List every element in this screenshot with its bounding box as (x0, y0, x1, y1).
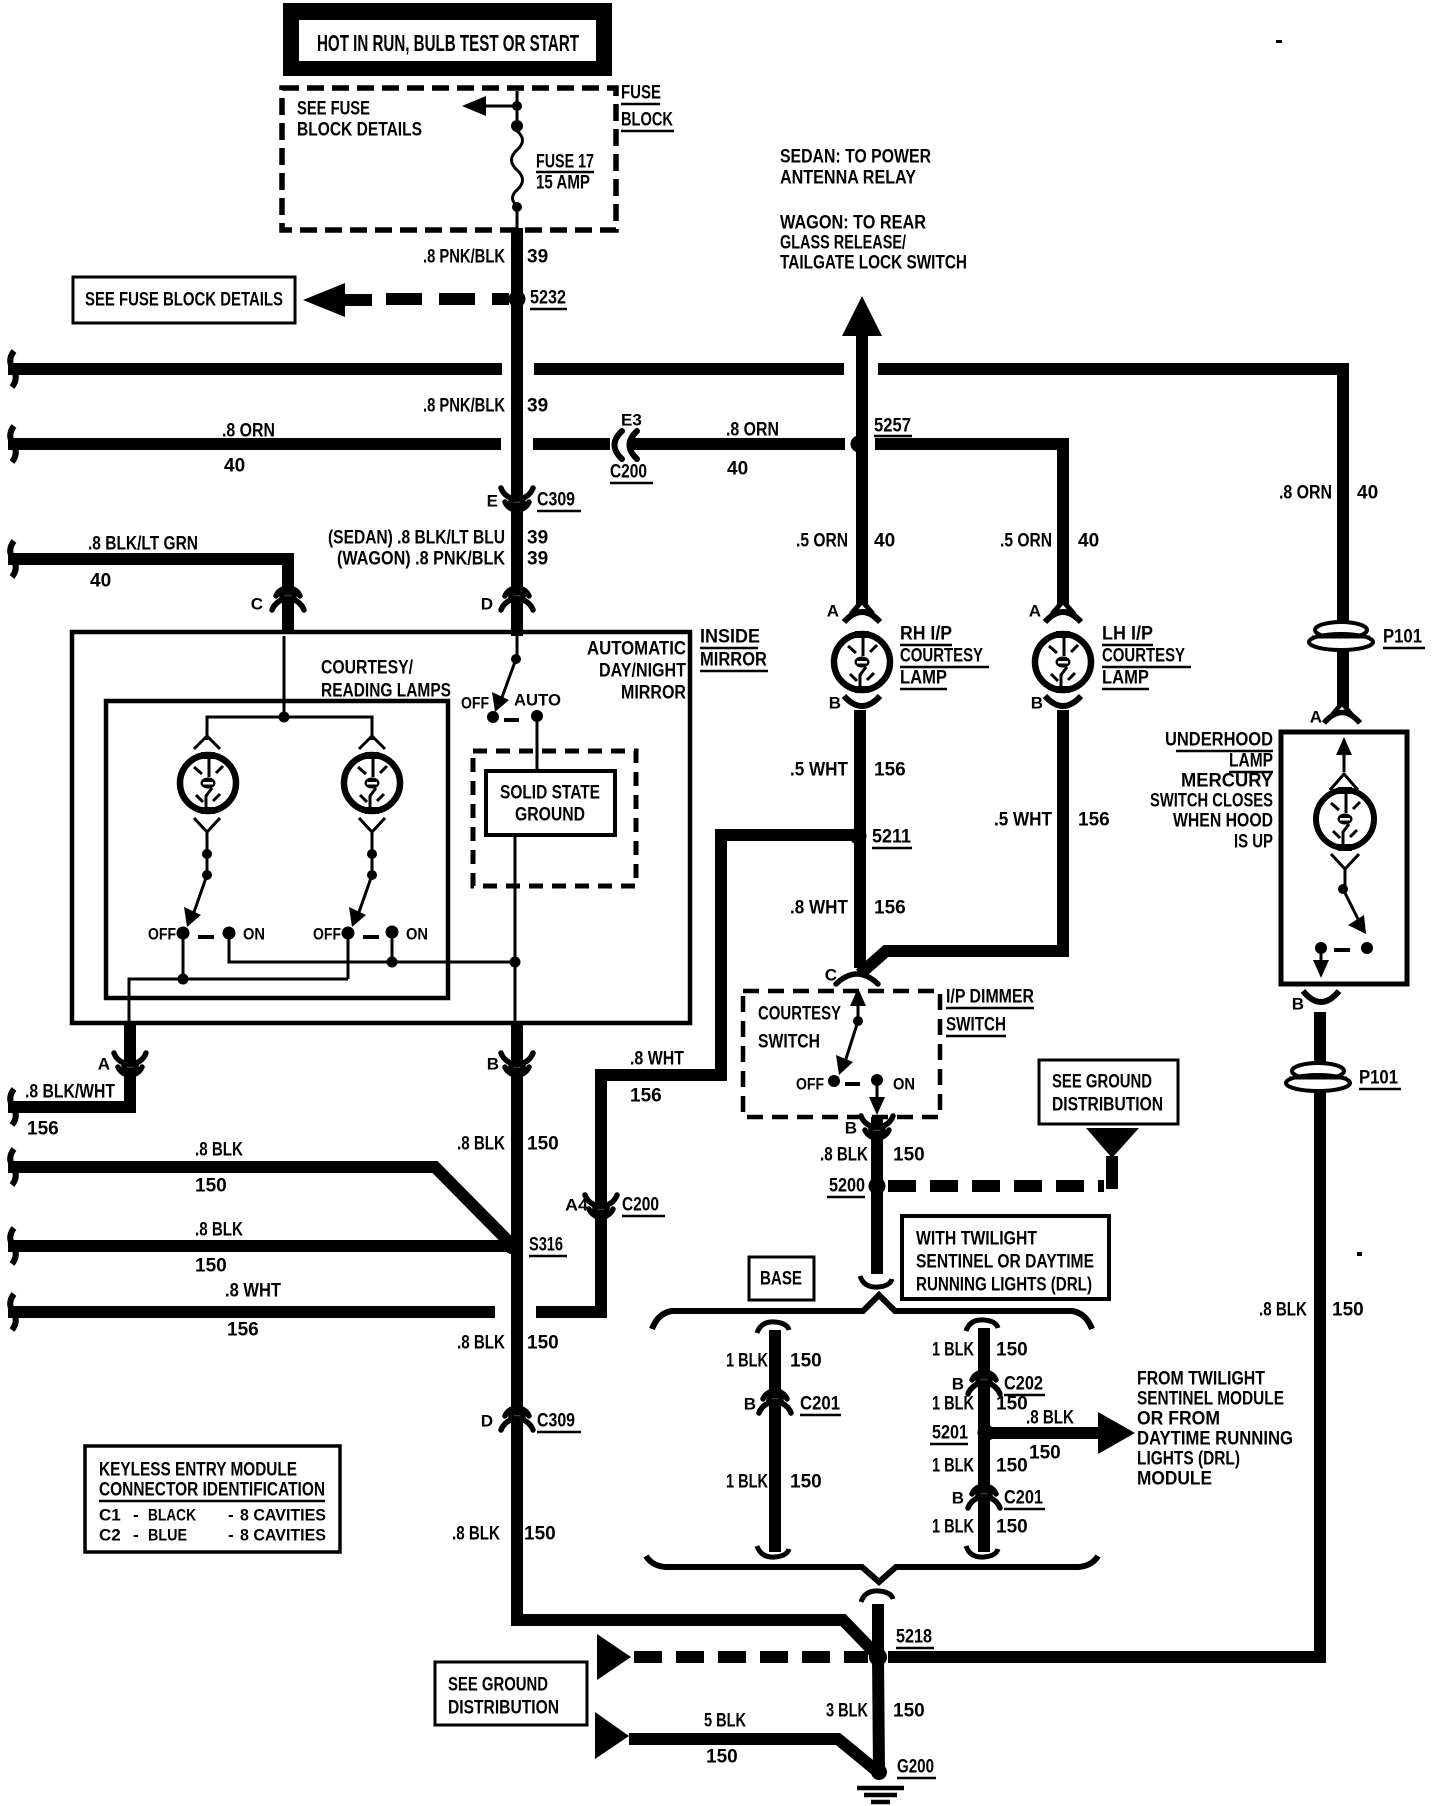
svg-text:5200: 5200 (829, 1176, 865, 1197)
wire RH lamp to courtesy switch (854, 710, 866, 968)
underhood lamp box (1281, 732, 1407, 984)
curl bottom right branch (966, 1546, 998, 1557)
svg-text:150: 150 (996, 1456, 1028, 1477)
switch L arm (193, 875, 207, 915)
wire ORN from C200 to LH lamp (628, 438, 845, 450)
connector D C309 lower (caps down) (511, 1413, 523, 1419)
curl wire end above base brace (860, 1276, 892, 1287)
svg-text:DISTRIBUTION: DISTRIBUTION (448, 1698, 559, 1719)
automatic day/night mirror box (72, 632, 690, 1023)
svg-text:-: - (228, 1526, 234, 1545)
I/P DIMMER COURTESY SWITCH (828, 988, 885, 1115)
svg-text:OFF: OFF (796, 1075, 824, 1094)
svg-text:.8 BLK: .8 BLK (452, 1524, 500, 1545)
svg-text:1 BLK: 1 BLK (932, 1340, 974, 1361)
wire bus 1 .8 PNK/BLK horizontal y369 (8, 363, 502, 375)
svg-text:WITH TWILIGHT: WITH TWILIGHT (916, 1229, 1037, 1250)
svg-text:CONNECTOR IDENTIFICATION: CONNECTOR IDENTIFICATION (99, 1480, 325, 1501)
wire .8 WHT from S211 down-left to left edge (536, 835, 853, 1312)
svg-text:C201: C201 (1004, 1488, 1043, 1509)
svg-text:A4: A4 (565, 1196, 589, 1215)
wire .5 ORN vertical with up arrow to RH lamp (856, 334, 868, 604)
svg-text:SENTINEL OR DAYTIME: SENTINEL OR DAYTIME (916, 1252, 1094, 1273)
wire end mark y1167 (10, 1149, 16, 1185)
svg-text:40: 40 (224, 456, 245, 477)
MIRROR OFF/AUTO SWITCH (487, 636, 543, 1021)
connector E3 C200 on ORN wire (arcs left) (615, 431, 623, 459)
BOXES (1276, 40, 1282, 43)
keyless entry module box (85, 1446, 340, 1552)
svg-text:.5 ORN: .5 ORN (796, 531, 848, 552)
svg-text:39: 39 (527, 549, 548, 570)
svg-text:IS UP: IS UP (1234, 832, 1273, 853)
svg-text:S316: S316 (529, 1235, 563, 1256)
svg-text:(SEDAN) .8 BLK/LT BLU: (SEDAN) .8 BLK/LT BLU (328, 528, 505, 549)
svg-text:150: 150 (893, 1701, 925, 1722)
svg-text:156: 156 (874, 898, 906, 919)
wire end mark y1107 (10, 1089, 16, 1125)
svg-text:156: 156 (874, 760, 906, 781)
svg-text:C2: C2 (99, 1526, 121, 1545)
svg-text:(WAGON) .8 PNK/BLK: (WAGON) .8 PNK/BLK (337, 549, 505, 570)
curl below lower brace (861, 1591, 893, 1602)
wire lamp rail (207, 717, 372, 740)
LH I/P COURTESY LAMP (1035, 601, 1091, 706)
solid state ground inner box (486, 771, 615, 835)
svg-text:C: C (825, 966, 837, 985)
svg-text:39: 39 (527, 396, 548, 417)
wire end mark y1246 (10, 1228, 16, 1264)
node G200 (871, 1764, 887, 1780)
HOT IN RUN box (283, 3, 612, 76)
svg-text:1 BLK: 1 BLK (932, 1517, 974, 1538)
svg-text:C201: C201 (800, 1394, 840, 1415)
svg-text:5211: 5211 (872, 827, 911, 848)
connector B C201 left branch (caps down) (769, 1396, 781, 1402)
svg-text:.8 PNK/BLK: .8 PNK/BLK (423, 247, 505, 268)
svg-text:D: D (481, 595, 493, 614)
wire 5 BLK to G200 (629, 1739, 877, 1771)
svg-text:SEE FUSE: SEE FUSE (297, 99, 370, 120)
connector D pin (caps down) (511, 593, 523, 599)
svg-text:BLOCK: BLOCK (621, 110, 673, 131)
svg-text:8 CAVITIES: 8 CAVITIES (240, 1526, 326, 1545)
svg-text:156: 156 (27, 1119, 59, 1140)
wire S201 to DRL arrow (990, 1427, 1100, 1439)
svg-text:P101: P101 (1359, 1068, 1398, 1089)
BASE box (749, 1257, 814, 1300)
svg-text:DAY/NIGHT: DAY/NIGHT (599, 661, 686, 682)
svg-text:LAMP: LAMP (1102, 668, 1149, 689)
curl top right branch (966, 1320, 998, 1331)
svg-text:WHEN HOOD: WHEN HOOD (1173, 811, 1273, 832)
curl top left branch (757, 1322, 789, 1333)
svg-text:GROUND: GROUND (515, 805, 585, 826)
connector A4 C200 (cups up) (595, 1206, 607, 1212)
arrow 5 BLK (595, 1712, 629, 1759)
svg-text:150: 150 (524, 1524, 556, 1545)
solid state ground dashed box (473, 751, 636, 886)
svg-text:D: D (481, 1412, 493, 1431)
wire mirror A terminal to left .8 BLK/WHT (8, 1021, 130, 1107)
see ground distribution box (left) (435, 1662, 587, 1725)
wire .8 WHT left segment (8, 1306, 495, 1318)
svg-text:.5 ORN: .5 ORN (1000, 531, 1052, 552)
wire S200 dashed to ground distribution funnel (888, 1180, 1104, 1192)
svg-text:OFF: OFF (148, 925, 176, 944)
GROUND SYMBOL G200 (857, 1788, 904, 1802)
I/P dimmer switch dashed box (743, 991, 940, 1117)
svg-text:LIGHTS (DRL): LIGHTS (DRL) (1137, 1449, 1240, 1470)
svg-text:LH I/P: LH I/P (1102, 624, 1153, 645)
svg-text:B: B (952, 1375, 964, 1394)
wire .8 BLK/LT GRN y559 to C connector (8, 559, 288, 634)
fuse F17 squiggle (512, 131, 523, 206)
svg-text:FROM TWILIGHT: FROM TWILIGHT (1137, 1369, 1265, 1390)
wire base branch left (769, 1330, 781, 1552)
svg-text:DISTRIBUTION: DISTRIBUTION (1052, 1095, 1163, 1116)
wire solid state ground exit (514, 835, 517, 1021)
wire S218 to G200 (878, 1657, 879, 1770)
svg-text:SEE GROUND: SEE GROUND (448, 1675, 548, 1696)
svg-text:.8 BLK: .8 BLK (1026, 1408, 1074, 1429)
connector B below dimmer (cups up) (871, 1127, 883, 1133)
svg-text:15 AMP: 15 AMP (536, 173, 590, 194)
svg-text:150: 150 (1332, 1300, 1364, 1321)
svg-text:156: 156 (630, 1086, 662, 1107)
svg-text:MODULE: MODULE (1137, 1469, 1212, 1490)
svg-text:150: 150 (195, 1176, 227, 1197)
connector B below mirror box (cups up) (511, 1064, 523, 1070)
svg-text:1 BLK: 1 BLK (726, 1351, 768, 1372)
svg-text:156: 156 (1078, 810, 1110, 831)
svg-text:B: B (829, 694, 841, 713)
svg-text:.8 BLK: .8 BLK (457, 1134, 505, 1155)
connector C into dimmer box (cap down) (836, 974, 878, 984)
svg-text:39: 39 (527, 247, 548, 268)
svg-text:P101: P101 (1383, 627, 1422, 648)
branch end curls (757, 1276, 998, 1602)
svg-text:I/P DIMMER: I/P DIMMER (946, 987, 1034, 1008)
svg-text:SOLID STATE: SOLID STATE (500, 783, 600, 804)
wire main vertical BLK below mirror box to S218 (517, 1021, 875, 1653)
wire fuse feed (516, 91, 519, 131)
svg-text:.5 WHT: .5 WHT (790, 760, 848, 781)
see fuse block big arrow (303, 283, 345, 317)
svg-text:8 CAVITIES: 8 CAVITIES (240, 1506, 326, 1525)
svg-text:.8 BLK: .8 BLK (457, 1333, 505, 1354)
svg-text:INSIDE: INSIDE (700, 627, 760, 648)
svg-text:.8 BLK: .8 BLK (195, 1220, 243, 1241)
svg-text:-: - (228, 1506, 234, 1525)
switch R arm (358, 875, 372, 915)
svg-text:B: B (952, 1489, 964, 1508)
svg-text:150: 150 (996, 1394, 1028, 1415)
svg-text:COURTESY/: COURTESY/ (321, 658, 414, 679)
svg-text:SEE GROUND: SEE GROUND (1052, 1072, 1152, 1093)
svg-text:C200: C200 (622, 1195, 659, 1216)
wire bus 2 .8 ORN horizontal y444 (8, 438, 501, 450)
lamp L (courtesy/reading) (194, 736, 220, 749)
svg-text:150: 150 (706, 1747, 738, 1768)
svg-text:5218: 5218 (896, 1627, 932, 1648)
wire arrow to fuse details (480, 105, 517, 108)
wire end mark y559 (10, 541, 16, 577)
svg-text:40: 40 (90, 571, 111, 592)
svg-text:C309: C309 (537, 490, 575, 511)
svg-text:B: B (845, 1119, 857, 1138)
connector A underhood (cap down) (1332, 703, 1352, 715)
svg-text:.8 BLK: .8 BLK (195, 1140, 243, 1161)
svg-text:1 BLK: 1 BLK (932, 1456, 974, 1477)
connector B C202 right branch (caps down) (978, 1377, 990, 1383)
svg-text:OR FROM: OR FROM (1137, 1409, 1220, 1430)
svg-text:3 BLK: 3 BLK (826, 1701, 868, 1722)
svg-text:BLUE: BLUE (148, 1526, 187, 1545)
connector B underhood (cup up) (1303, 991, 1339, 1002)
svg-text:DAYTIME RUNNING: DAYTIME RUNNING (1137, 1429, 1293, 1450)
svg-text:A: A (1029, 602, 1041, 621)
svg-text:40: 40 (727, 459, 748, 480)
svg-text:40: 40 (1357, 483, 1378, 504)
svg-text:150: 150 (790, 1472, 822, 1493)
wire (533, 438, 610, 450)
COURTESY/READING LAMPS CIRCUIT (129, 636, 521, 1021)
svg-text:5257: 5257 (874, 416, 911, 437)
connector C309 pin E (cups up) (511, 499, 523, 505)
RH I/P COURTESY LAMP (834, 601, 890, 706)
up arrow to power antenna relay (842, 296, 882, 336)
svg-text:39: 39 (527, 528, 548, 549)
svg-text:SWITCH CLOSES: SWITCH CLOSES (1150, 791, 1273, 812)
CONNECTORS (114, 431, 1000, 1508)
svg-text:ON: ON (243, 925, 265, 944)
node S232 (509, 291, 526, 308)
wire end mark y369 (10, 351, 16, 387)
svg-text:UNDERHOOD: UNDERHOOD (1165, 730, 1273, 751)
svg-text:150: 150 (527, 1333, 559, 1354)
svg-text:C: C (251, 595, 263, 614)
svg-text:KEYLESS ENTRY MODULE: KEYLESS ENTRY MODULE (99, 1460, 297, 1481)
svg-text:150: 150 (527, 1134, 559, 1155)
svg-text:E3: E3 (621, 411, 642, 430)
svg-text:E: E (487, 492, 498, 511)
wire ON rail (229, 933, 515, 962)
lamp R (courtesy/reading) (359, 736, 385, 749)
svg-text:C202: C202 (1004, 1374, 1043, 1395)
svg-text:GLASS RELEASE/: GLASS RELEASE/ (780, 233, 907, 254)
node S211 (850, 828, 867, 845)
svg-text:MERCURY: MERCURY (1181, 771, 1273, 792)
node S257 (851, 436, 868, 453)
svg-text:TAILGATE LOCK SWITCH: TAILGATE LOCK SWITCH (780, 253, 967, 274)
wire end mark y444 (10, 426, 16, 462)
svg-text:HOT IN RUN, BULB TEST OR START: HOT IN RUN, BULB TEST OR START (317, 30, 579, 56)
fuse block dashed box (282, 88, 616, 230)
node S200 (869, 1178, 886, 1195)
wire (534, 363, 844, 375)
svg-text:AUTOMATIC: AUTOMATIC (587, 639, 686, 660)
svg-text:A: A (98, 1055, 110, 1074)
svg-text:RUNNING LIGHTS (DRL): RUNNING LIGHTS (DRL) (916, 1275, 1092, 1296)
wire S218 right to .8 BLK right vertical up to underhood B (888, 1012, 1320, 1657)
svg-text:C1: C1 (99, 1506, 121, 1525)
svg-text:150: 150 (790, 1351, 822, 1372)
svg-text:BASE: BASE (760, 1269, 802, 1290)
svg-text:150: 150 (893, 1145, 925, 1166)
svg-text:.8 ORN: .8 ORN (726, 420, 779, 441)
svg-text:COURTESY: COURTESY (758, 1004, 841, 1025)
svg-text:1 BLK: 1 BLK (932, 1394, 974, 1415)
svg-text:.8 WHT: .8 WHT (225, 1281, 281, 1302)
svg-text:.8 BLK: .8 BLK (820, 1145, 868, 1166)
brace upper (652, 1295, 1092, 1329)
see fuse block details box (73, 277, 295, 323)
brace lower (646, 1556, 1098, 1582)
svg-text:BLACK: BLACK (148, 1506, 197, 1525)
connector A below mirror box (cups up) (124, 1064, 136, 1070)
svg-text:B: B (487, 1055, 499, 1074)
svg-text:ON: ON (406, 925, 428, 944)
with twilight sentinel box (902, 1216, 1109, 1299)
wire OFF rail (129, 933, 183, 1021)
svg-text:B: B (1031, 694, 1043, 713)
arrow dashed ground distribution (597, 1634, 631, 1680)
svg-text:READING LAMPS: READING LAMPS (321, 681, 451, 702)
wire feed into lamps (283, 636, 286, 717)
svg-text:.8 BLK/WHT: .8 BLK/WHT (25, 1082, 115, 1103)
svg-text:B: B (1292, 995, 1304, 1014)
svg-text:150: 150 (195, 1256, 227, 1277)
node S201 (978, 1425, 995, 1442)
GROUND DISTRIBUTION FUNNEL (right) (1086, 1128, 1139, 1158)
svg-text:COURTESY: COURTESY (900, 646, 983, 667)
svg-text:WAGON: TO REAR: WAGON: TO REAR (780, 213, 926, 234)
svg-text:156: 156 (227, 1320, 259, 1341)
svg-text:COURTESY: COURTESY (1102, 646, 1185, 667)
wire .8 BLK y1167 diagonal into S316 (8, 1167, 512, 1245)
P101 connector top (1309, 622, 1373, 650)
courtesy/reading lamps inner box (106, 701, 448, 998)
svg-text:RH I/P: RH I/P (900, 624, 952, 645)
svg-text:.5 WHT: .5 WHT (994, 810, 1052, 831)
svg-text:OFF: OFF (461, 694, 489, 713)
wire dashed see-ground-distribution to S218 (634, 1651, 868, 1663)
svg-text:5201: 5201 (932, 1423, 968, 1444)
svg-text:A: A (827, 602, 839, 621)
svg-text:C309: C309 (537, 1411, 575, 1432)
svg-text:-: - (133, 1526, 139, 1545)
wire DRL branch right (978, 1328, 990, 1552)
wire dimmer switch B down through S200 (871, 1117, 883, 1274)
svg-text:A: A (1310, 708, 1322, 727)
svg-text:5 BLK: 5 BLK (704, 1711, 746, 1732)
svg-text:MIRROR: MIRROR (621, 683, 686, 704)
svg-text:.8 WHT: .8 WHT (630, 1049, 684, 1070)
wire .8 BLK y1246 into S316 (8, 1240, 508, 1252)
wire AUTO to solid state ground (536, 716, 539, 771)
FUSE BLOCK INTERNALS (462, 91, 523, 230)
svg-text:SEE FUSE BLOCK DETAILS: SEE FUSE BLOCK DETAILS (85, 290, 283, 311)
left edge continuation marks (10, 351, 16, 1330)
svg-text:G200: G200 (897, 1757, 934, 1778)
svg-text:B: B (744, 1395, 756, 1414)
svg-text:OFF: OFF (313, 925, 341, 944)
svg-text:SEDAN: TO POWER: SEDAN: TO POWER (780, 147, 931, 168)
svg-text:MIRROR: MIRROR (700, 650, 767, 671)
S201 DRL arrow (1098, 1412, 1135, 1454)
svg-text:5232: 5232 (530, 288, 566, 309)
see ground distribution box (right) (1039, 1060, 1178, 1124)
svg-text:AUTO: AUTO (514, 691, 561, 710)
wire funnel stem (1106, 1156, 1118, 1189)
svg-text:LAMP: LAMP (1229, 751, 1273, 772)
wire LH lamp down to C junction (860, 710, 1063, 974)
svg-text:40: 40 (1078, 531, 1099, 552)
P101 connector bottom (1286, 1063, 1350, 1091)
connector C pin (caps down) (282, 593, 294, 599)
svg-text:.8 BLK/LT GRN: .8 BLK/LT GRN (88, 534, 198, 555)
svg-text:SENTINEL MODULE: SENTINEL MODULE (1137, 1389, 1284, 1410)
curl bottom left branch (757, 1546, 789, 1557)
node S316 (503, 1236, 521, 1254)
node S218 (869, 1648, 887, 1666)
svg-text:150: 150 (996, 1340, 1028, 1361)
svg-text:C200: C200 (610, 462, 647, 483)
connector B C201 right branch lower (caps down) (978, 1491, 990, 1497)
svg-text:FUSE 17: FUSE 17 (536, 152, 594, 173)
wire below lower brace to S218 (872, 1604, 884, 1660)
wire bus1 right segment + right ORN vertical to underhood (878, 369, 1343, 707)
svg-text:.8 PNK/BLK: .8 PNK/BLK (423, 396, 505, 417)
svg-text:SWITCH: SWITCH (946, 1015, 1006, 1036)
svg-text:BLOCK DETAILS: BLOCK DETAILS (297, 120, 422, 141)
UNDERHOOD LAMP (1303, 703, 1374, 1002)
svg-text:ANTENNA RELAY: ANTENNA RELAY (780, 168, 916, 189)
svg-text:LAMP: LAMP (900, 668, 947, 689)
wire end mark y1312 (10, 1294, 16, 1330)
svg-text:SWITCH: SWITCH (758, 1032, 820, 1053)
svg-text:40: 40 (874, 531, 895, 552)
svg-text:-: - (133, 1506, 139, 1525)
svg-text:1 BLK: 1 BLK (726, 1472, 768, 1493)
svg-text:.8 BLK: .8 BLK (1259, 1300, 1307, 1321)
svg-text:FUSE: FUSE (621, 83, 661, 104)
svg-text:150: 150 (996, 1517, 1028, 1538)
svg-text:.8 ORN: .8 ORN (1279, 483, 1332, 504)
wire dashed S232 to see-fuse-block arrow (386, 293, 509, 305)
svg-text:.8 WHT: .8 WHT (790, 898, 848, 919)
svg-text:ON: ON (893, 1075, 915, 1094)
svg-text:.8 ORN: .8 ORN (222, 421, 275, 442)
wire main vertical PNK/BLK x517 fuse to mirror box (511, 228, 523, 636)
svg-text:150: 150 (1029, 1443, 1061, 1464)
